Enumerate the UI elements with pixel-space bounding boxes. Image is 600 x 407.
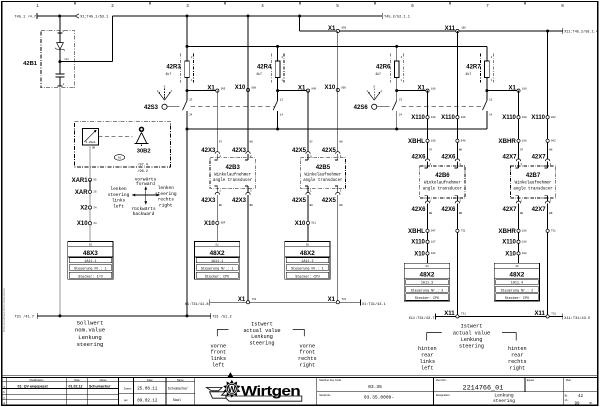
svg-text:4k7: 4k7 bbox=[465, 72, 471, 76]
svg-text:Steuerung Nr.: 1: Steuerung Nr.: 1 bbox=[201, 267, 234, 272]
svg-text:WH: WH bbox=[459, 148, 463, 151]
resistor 42R7 body 4k7 bbox=[485, 61, 490, 78]
svg-text:42B5: 42B5 bbox=[316, 165, 331, 171]
connector pin XAR1 on lever wire bbox=[88, 178, 91, 181]
controller connector box 48X2 (1A11.3) bbox=[404, 263, 449, 301]
svg-text:X1: X1 bbox=[328, 26, 336, 32]
svg-text:Stecker: CPU: Stecker: CPU bbox=[505, 296, 529, 301]
connector 42X7 sockets top bbox=[516, 159, 520, 161]
svg-text:Drawn: Drawn bbox=[124, 387, 132, 390]
svg-text:lenken: lenken bbox=[158, 185, 175, 191]
svg-text:42X6: 42X6 bbox=[411, 207, 426, 213]
svg-text:BN: BN bbox=[549, 212, 553, 215]
connector pin X10 lever wire bbox=[88, 222, 91, 225]
42B1 pin 1 bbox=[59, 16, 61, 42]
svg-text:Stecker: I/O: Stecker: I/O bbox=[78, 274, 102, 279]
connector pins XBHL top row bbox=[426, 139, 429, 142]
svg-text:Winkelaufnehmer: Winkelaufnehmer bbox=[424, 181, 461, 186]
switch contact 23/24 at x=187.0 bbox=[186, 91, 188, 101]
svg-text:X1: X1 bbox=[328, 297, 336, 303]
switch contact 13/14 at x=277.6 bbox=[277, 91, 279, 101]
wire 42R3 to node bbox=[186, 78, 188, 91]
svg-text:24: 24 bbox=[189, 114, 193, 117]
svg-text:Bl.42-Nova/Stand 09.02.12/GA-E: Bl.42-Nova/Stand 09.02.12/GA-Ersatz bbox=[2, 287, 6, 332]
wire 42X7 left signal down bbox=[518, 91, 520, 160]
svg-text:34: 34 bbox=[93, 222, 97, 225]
svg-text:X11:T45.2/58.1.4: X11:T45.2/58.1.4 bbox=[564, 29, 598, 34]
svg-text:BN: BN bbox=[339, 204, 343, 207]
svg-text:XAR1: XAR1 bbox=[72, 178, 89, 184]
svg-text:X11: X11 bbox=[444, 311, 455, 317]
svg-text:Istwert: Istwert bbox=[251, 321, 273, 327]
svg-text:Wirtgen: Wirtgen bbox=[241, 384, 300, 399]
svg-text:011: 011 bbox=[311, 222, 316, 225]
node 42B1 top tap bbox=[58, 15, 61, 18]
svg-text:right: right bbox=[300, 362, 316, 368]
svg-text:T31: T31 bbox=[461, 230, 466, 233]
wire rear supply-out to Istwert line bbox=[456, 204, 458, 317]
svg-text:rechts: rechts bbox=[508, 359, 527, 365]
selector switch 42S6 position diagram bbox=[369, 93, 375, 101]
steering lever 30B2 symbol bbox=[139, 127, 144, 132]
svg-text:Machine Key Code:: Machine Key Code: bbox=[319, 378, 342, 382]
mechanical link sensor to lever bbox=[99, 136, 133, 138]
mechanical link dashed 42S3 bbox=[191, 106, 275, 108]
svg-text:42X5: 42X5 bbox=[292, 148, 307, 154]
svg-text:steering: steering bbox=[77, 341, 104, 348]
wire rear signal down with pins bbox=[518, 204, 520, 264]
svg-text:42B3: 42B3 bbox=[225, 165, 240, 171]
wire 42B1 node to top bus riser bbox=[112, 16, 114, 62]
svg-text:Steuerung Nr.: 2: Steuerung Nr.: 2 bbox=[411, 288, 444, 293]
drawn/approved table bbox=[133, 377, 135, 405]
svg-text:X10: X10 bbox=[77, 221, 88, 227]
svg-text:25.08.11: 25.08.11 bbox=[137, 388, 158, 392]
svg-text:Modification: Modification bbox=[30, 378, 44, 382]
connector pin X10.009 on supply wire bbox=[336, 88, 339, 91]
connector 42X6 sockets top bbox=[425, 159, 429, 161]
svg-text:42B7: 42B7 bbox=[526, 173, 541, 179]
revision table bbox=[2, 381, 119, 383]
svg-text:GY: GY bbox=[310, 141, 314, 144]
wire 42R4 supply drop from top bus bbox=[247, 15, 250, 18]
svg-text:hinten: hinten bbox=[508, 346, 527, 352]
svg-text:T31: T31 bbox=[252, 298, 257, 301]
svg-text:48X2: 48X2 bbox=[300, 250, 315, 257]
svg-text:05: 05 bbox=[93, 179, 97, 182]
steering lever enclosure dash-dot bbox=[75, 122, 171, 167]
svg-text:X10: X10 bbox=[204, 221, 215, 227]
svg-text:Winkelaufnehmer: Winkelaufnehmer bbox=[304, 173, 341, 178]
svg-text:X11: X11 bbox=[445, 26, 456, 32]
svg-text:42X6: 42X6 bbox=[411, 155, 426, 161]
suppression module 42B1 enclosure bbox=[41, 31, 75, 88]
svg-text:X10: X10 bbox=[414, 251, 425, 257]
svg-text:X1:T45.1/63.1: X1:T45.1/63.1 bbox=[80, 14, 108, 19]
svg-text:Ident-No.:: Ident-No.: bbox=[436, 378, 448, 382]
svg-text:2214766_01: 2214766_01 bbox=[463, 385, 504, 393]
svg-text:42R6: 42R6 bbox=[376, 65, 391, 71]
svg-text:X1: X1 bbox=[509, 86, 517, 92]
connector pins X110 row bbox=[517, 116, 520, 119]
wire 42B1 to Sollwert line (gray) bbox=[59, 88, 61, 316]
controller connector box 48X2 (1A11.1) bbox=[194, 242, 239, 280]
svg-text:GY: GY bbox=[429, 148, 433, 151]
svg-text:left: left bbox=[421, 365, 433, 371]
svg-text:rechts: rechts bbox=[298, 356, 317, 362]
wire node to connector pin X1.180 bbox=[487, 90, 517, 92]
svg-text:13: 13 bbox=[280, 99, 284, 102]
angle transducer 42B7 bbox=[510, 166, 555, 198]
svg-text:X2: X2 bbox=[80, 206, 88, 212]
svg-text:02: 02 bbox=[89, 243, 93, 246]
svg-text:01: 01 bbox=[118, 157, 122, 160]
svg-text:X1: X1 bbox=[298, 86, 306, 92]
svg-text:X11:T31/43.7: X11:T31/43.7 bbox=[409, 316, 435, 321]
svg-text:188: 188 bbox=[522, 241, 527, 244]
svg-text:T31: T31 bbox=[551, 230, 556, 233]
bracket front istwert left bbox=[217, 330, 228, 337]
svg-text:angle transducer: angle transducer bbox=[213, 178, 253, 183]
connector 42X3 sockets top bbox=[215, 152, 219, 154]
svg-text:04: 04 bbox=[425, 265, 429, 268]
svg-text:Stecker: CPU: Stecker: CPU bbox=[295, 274, 319, 279]
resistor 42R6 body 4k7 bbox=[394, 61, 399, 78]
wire 42X6 left signal down bbox=[427, 91, 429, 160]
connector pin X2 bbox=[88, 206, 91, 209]
svg-text:vorne: vorne bbox=[300, 343, 316, 349]
svg-text:GN: GN bbox=[92, 147, 96, 150]
svg-text:01: QV angepasst: 01: QV angepasst bbox=[18, 384, 49, 388]
svg-text:040: 040 bbox=[461, 116, 466, 119]
svg-text:/96.2: /96.2 bbox=[137, 169, 148, 174]
svg-text:048: 048 bbox=[461, 140, 466, 143]
svg-text:hinten: hinten bbox=[418, 346, 437, 352]
svg-text:Winkelaufnehmer: Winkelaufnehmer bbox=[214, 173, 251, 178]
svg-text:Lenkung: Lenkung bbox=[78, 334, 102, 341]
connector pin X10.008 on supply wire bbox=[246, 88, 249, 91]
svg-text:Schumacher: Schumacher bbox=[89, 384, 111, 388]
svg-text:166: 166 bbox=[461, 27, 466, 30]
svg-text:Equal:: Equal: bbox=[527, 378, 535, 382]
svg-text:forward: forward bbox=[136, 181, 155, 187]
connector pin X11.T31 rear-right bbox=[546, 315, 549, 318]
svg-text:03.35: 03.35 bbox=[368, 384, 382, 390]
svg-text:42X3: 42X3 bbox=[232, 148, 247, 154]
svg-text:Steuerung Nr.: 1: Steuerung Nr.: 1 bbox=[74, 267, 107, 272]
svg-text:166: 166 bbox=[431, 140, 436, 143]
wire supply-out to Istwert line bbox=[247, 195, 249, 302]
svg-text:Designation:: Designation: bbox=[436, 393, 451, 397]
mechanical link dashed 42S6 bbox=[402, 106, 484, 108]
svg-text:188: 188 bbox=[522, 140, 527, 143]
fold mark triangle bottom bbox=[227, 372, 233, 377]
svg-text:Name: Name bbox=[177, 378, 184, 382]
svg-text:steering: steering bbox=[250, 341, 275, 347]
svg-text:42X3: 42X3 bbox=[201, 148, 216, 154]
svg-text:angle transducer: angle transducer bbox=[513, 186, 553, 191]
svg-text:1A11.1: 1A11.1 bbox=[211, 260, 223, 264]
wire XAR1 to XAR segment bbox=[89, 180, 91, 192]
svg-text:X110: X110 bbox=[502, 240, 516, 246]
sensor 4-20mA box bbox=[83, 129, 99, 146]
svg-text:Name: Name bbox=[100, 378, 107, 382]
svg-text:WH: WH bbox=[250, 141, 254, 144]
svg-text:W: W bbox=[228, 385, 236, 394]
wire node to connector pin X1.186 bbox=[397, 90, 426, 92]
wire supply-out to Istwert line bbox=[337, 195, 339, 302]
svg-text:1A11.4: 1A11.4 bbox=[511, 282, 523, 286]
angle transducer 42B3 bbox=[210, 158, 255, 189]
svg-text:42X7: 42X7 bbox=[532, 155, 547, 161]
svg-text:42X7: 42X7 bbox=[502, 207, 517, 213]
svg-text:actual value: actual value bbox=[453, 330, 490, 336]
column number ticks top bbox=[74, 1, 76, 4]
wire 42X3 left signal down bbox=[216, 91, 218, 152]
svg-text:4k7: 4k7 bbox=[256, 72, 262, 76]
svg-text:114: 114 bbox=[64, 58, 69, 61]
svg-text:T45.2/52.1.1: T45.2/52.1.1 bbox=[384, 14, 410, 19]
svg-text:T31: T31 bbox=[551, 312, 556, 315]
drawing area bottom line bbox=[2, 375, 598, 377]
svg-text:backward: backward bbox=[133, 211, 155, 217]
svg-text:42R4: 42R4 bbox=[257, 65, 272, 71]
svg-text:X11: X11 bbox=[534, 311, 545, 317]
svg-text:rear: rear bbox=[511, 352, 523, 358]
svg-text:42: 42 bbox=[578, 395, 584, 399]
svg-text:left: left bbox=[212, 362, 224, 368]
svg-text:T31: T31 bbox=[461, 312, 466, 315]
wire top feed for 42R3 bbox=[186, 16, 188, 61]
svg-text:1A11.2: 1A11.2 bbox=[301, 260, 313, 264]
connector pin X1.T31 front-right bbox=[336, 301, 339, 304]
off-sheet label T45.2/52.1.1 bbox=[381, 13, 383, 19]
wire 42X5 right supply down bbox=[337, 31, 339, 152]
controller connector box 48X2 (1A11.4) bbox=[494, 263, 539, 301]
svg-text:42X5: 42X5 bbox=[322, 148, 337, 154]
svg-text:Winkelaufnehmer: Winkelaufnehmer bbox=[515, 181, 552, 186]
svg-text:ger.: ger. bbox=[124, 399, 128, 402]
connector pins X110 row bbox=[426, 116, 429, 119]
svg-text:009: 009 bbox=[341, 87, 346, 90]
svg-text:Steuerung Nr.: 1: Steuerung Nr.: 1 bbox=[291, 267, 324, 272]
selector switch 42S3 knob bbox=[162, 104, 167, 109]
controller connector box 48X3 (1A11.1) bbox=[68, 242, 113, 280]
svg-text:23: 23 bbox=[189, 99, 193, 102]
connector pin X1.T31 front-left bbox=[246, 301, 249, 304]
svg-text:lenken: lenken bbox=[110, 186, 127, 192]
svg-text:42B1: 42B1 bbox=[23, 61, 38, 67]
net resistor feeder rail bbox=[187, 45, 487, 47]
svg-text:actual value: actual value bbox=[243, 328, 280, 334]
oval 01 marker bbox=[114, 155, 124, 161]
42B1 pin 2 bbox=[58, 85, 63, 87]
wire common bus to Sollwert line bbox=[186, 129, 188, 316]
svg-text:BU: BU bbox=[219, 204, 223, 207]
svg-text:005: 005 bbox=[221, 87, 226, 90]
svg-text:front: front bbox=[300, 350, 316, 356]
svg-text:nom.value: nom.value bbox=[75, 327, 105, 334]
svg-text:02: 02 bbox=[216, 243, 220, 246]
svg-text:T45.1 /4.7: T45.1 /4.7 bbox=[15, 14, 37, 19]
svg-text:188: 188 bbox=[522, 116, 527, 119]
wire 42R4 to node bbox=[277, 78, 279, 91]
svg-text:Sollwert: Sollwert bbox=[77, 319, 104, 326]
svg-text:Lenkung: Lenkung bbox=[494, 392, 514, 398]
svg-text:steering: steering bbox=[459, 344, 484, 350]
svg-text:X10: X10 bbox=[325, 85, 336, 91]
selector switch 42S6 link to contact bbox=[377, 106, 390, 108]
svg-text:Bl.: Bl. bbox=[590, 401, 593, 405]
svg-text:XBHR: XBHR bbox=[498, 138, 516, 145]
svg-text:09.02.12: 09.02.12 bbox=[137, 400, 158, 404]
svg-text:GY: GY bbox=[520, 148, 524, 151]
node 114 of 42B1 bbox=[58, 60, 61, 63]
wire supply rail branch at x=299.6 bbox=[298, 15, 301, 18]
svg-text:187: 187 bbox=[431, 241, 436, 244]
svg-text:rear: rear bbox=[421, 352, 433, 358]
svg-text:X11:T31/43.5: X11:T31/43.5 bbox=[564, 316, 590, 321]
svg-text:BN: BN bbox=[459, 212, 463, 215]
connector pin X11.T31 rear-left bbox=[456, 315, 459, 318]
svg-text:42X6: 42X6 bbox=[441, 207, 456, 213]
svg-text:X10: X10 bbox=[295, 221, 306, 227]
svg-text:/97.4: /97.4 bbox=[137, 163, 148, 168]
bracket rear istwert right bbox=[502, 333, 516, 341]
svg-text:X1:T31/41.8: X1:T31/41.8 bbox=[185, 302, 209, 307]
svg-text:steering: steering bbox=[155, 191, 177, 197]
svg-text:4-20mA: 4-20mA bbox=[86, 141, 96, 144]
svg-text:42X7: 42X7 bbox=[532, 207, 547, 213]
svg-text:XBHR: XBHR bbox=[498, 228, 516, 235]
svg-text:24: 24 bbox=[399, 114, 403, 117]
net X11 supply rail bbox=[300, 30, 563, 32]
svg-text:1A11.1: 1A11.1 bbox=[84, 260, 96, 264]
diode V1 in 42B1 bbox=[57, 43, 64, 50]
svg-text:X1: X1 bbox=[207, 86, 215, 92]
connector pin X11.166 on rail bbox=[456, 29, 459, 32]
selector switch 42S6 knob bbox=[372, 104, 377, 109]
connector pins XBHR top row bbox=[517, 139, 520, 142]
node rail to 42R7 channel supply bbox=[546, 30, 549, 33]
svg-text:049: 049 bbox=[311, 87, 316, 90]
svg-text:left: left bbox=[113, 203, 124, 209]
svg-text:Serial-No.:: Serial-No.: bbox=[319, 393, 332, 397]
svg-text:front: front bbox=[211, 350, 227, 356]
angle transducer 42B6 bbox=[420, 166, 465, 198]
svg-text:047: 047 bbox=[431, 230, 436, 233]
svg-text:03.35.0009-: 03.35.0009- bbox=[364, 395, 394, 401]
svg-text:angle transducer: angle transducer bbox=[303, 178, 343, 183]
svg-text:Plan:: Plan: bbox=[566, 378, 572, 382]
svg-text:Saal: Saal bbox=[173, 398, 181, 403]
svg-text:008: 008 bbox=[251, 87, 256, 90]
svg-text:T31: T31 bbox=[342, 298, 347, 301]
wire rear supply-out to Istwert line bbox=[547, 204, 549, 317]
svg-text:X110: X110 bbox=[502, 115, 516, 121]
svg-text:links: links bbox=[211, 356, 227, 362]
connector pin XAR bbox=[88, 190, 91, 193]
svg-text:X1: X1 bbox=[418, 86, 426, 92]
svg-text:42X7: 42X7 bbox=[502, 155, 517, 161]
svg-text:006: 006 bbox=[342, 27, 347, 30]
svg-text:14: 14 bbox=[280, 114, 284, 117]
wire 42X3 right supply down bbox=[247, 16, 249, 152]
svg-text:XBHL: XBHL bbox=[408, 138, 425, 145]
svg-text:X110: X110 bbox=[411, 115, 425, 121]
svg-text:sh.:: sh.: bbox=[565, 398, 569, 402]
svg-text:BU: BU bbox=[429, 212, 433, 215]
title block right section bbox=[316, 377, 318, 405]
svg-text:Stecker: CPU: Stecker: CPU bbox=[415, 296, 439, 301]
resistor 42R3 connector shell dashed bbox=[180, 53, 182, 82]
svg-text:4k7: 4k7 bbox=[166, 72, 172, 76]
wire 42X7 right supply down bbox=[547, 31, 549, 159]
svg-text:X10: X10 bbox=[505, 251, 516, 257]
svg-text:34: 34 bbox=[93, 206, 97, 209]
svg-text:42X3: 42X3 bbox=[201, 198, 216, 204]
bracket rear istwert left bbox=[427, 333, 442, 341]
svg-text:99: 99 bbox=[574, 402, 580, 406]
wire signal to X10 pin to controller bbox=[307, 195, 309, 242]
direction arrows cross bbox=[133, 194, 159, 196]
resistor 42R7 connector shell dashed bbox=[480, 53, 482, 82]
switch contact 13/14 at x=486.9 bbox=[486, 91, 488, 101]
svg-text:X1: X1 bbox=[238, 297, 246, 303]
svg-text:42R3: 42R3 bbox=[166, 65, 181, 71]
Wirtgen logo bbox=[207, 388, 302, 402]
svg-text:42X3: 42X3 bbox=[232, 198, 247, 204]
svg-text:13: 13 bbox=[489, 99, 493, 102]
wire signal to X10 pin to controller bbox=[216, 195, 218, 242]
wire 42X6 right supply down bbox=[456, 31, 458, 159]
svg-text:42X6: 42X6 bbox=[441, 155, 456, 161]
connector 42X5 sockets top bbox=[306, 152, 310, 154]
svg-text:angle transducer: angle transducer bbox=[423, 186, 463, 191]
svg-text:48X2: 48X2 bbox=[420, 272, 435, 279]
wire 42R7 to node bbox=[486, 78, 488, 91]
svg-text:right: right bbox=[510, 365, 526, 371]
svg-text:186: 186 bbox=[431, 87, 436, 90]
svg-text:48X3: 48X3 bbox=[83, 250, 98, 257]
net T45.1 top supply bus main segment bbox=[113, 15, 383, 17]
svg-text:48X2: 48X2 bbox=[509, 272, 524, 279]
svg-text:X1:T31/43.1: X1:T31/43.1 bbox=[362, 302, 386, 307]
wire top feed for 42R6 bbox=[396, 46, 398, 61]
svg-text:4k7: 4k7 bbox=[375, 72, 381, 76]
svg-text:BN: BN bbox=[250, 204, 254, 207]
svg-text:42S6: 42S6 bbox=[354, 105, 369, 111]
bracket front istwert right bbox=[293, 330, 305, 337]
Wirtgen logo gear bbox=[223, 380, 240, 398]
svg-text:Date: Date bbox=[74, 378, 80, 382]
svg-text:180: 180 bbox=[431, 116, 436, 119]
svg-text:26: 26 bbox=[93, 191, 97, 194]
svg-text:042: 042 bbox=[551, 116, 556, 119]
wire sensor output (gray) bbox=[89, 145, 91, 242]
svg-text:T31 /41.7: T31 /41.7 bbox=[15, 315, 34, 320]
svg-text:WH: WH bbox=[339, 141, 343, 144]
svg-text:steering: steering bbox=[493, 398, 515, 404]
wire top feed for 42R4 bbox=[277, 46, 279, 61]
svg-text:X110: X110 bbox=[411, 240, 425, 246]
capacitor C1 in 42B1 bbox=[59, 62, 61, 74]
svg-text:Schumacher: Schumacher bbox=[168, 386, 188, 391]
connector pin X1.006 on rail bbox=[336, 29, 339, 32]
resistor 42R6 connector shell dashed bbox=[389, 53, 391, 82]
svg-text:48X2: 48X2 bbox=[210, 250, 225, 257]
wire top feed for 42R7 bbox=[486, 46, 488, 61]
